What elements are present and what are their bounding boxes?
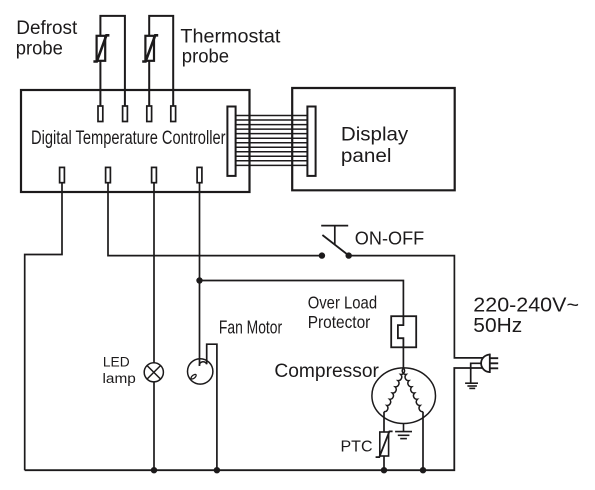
ground compressor case: [395, 424, 412, 439]
svg-text:PTC: PTC: [341, 439, 373, 456]
plug pins: [490, 358, 498, 368]
pin bottom 1: [60, 167, 65, 182]
pin bottom 3: [152, 167, 157, 182]
overload protector OLP1: [391, 316, 416, 347]
node junction pin4 branch: [196, 277, 202, 283]
svg-text:Compressor: Compressor: [274, 360, 379, 382]
label Display panel: [341, 125, 409, 168]
svg-text:Display: Display: [341, 125, 409, 146]
box U1 Digital Temperature Controller: [21, 90, 250, 192]
winding right coil: [402, 368, 423, 411]
pin top 3: [147, 106, 152, 122]
label LED lamp: [103, 355, 136, 386]
wire thermostat probe loop: [149, 16, 173, 106]
label Defrost probe: [16, 18, 78, 60]
wire OLP to compressor: [402, 347, 404, 368]
wire LED lamp to bus: [153, 382, 155, 470]
svg-text:panel: panel: [341, 146, 392, 167]
node junction PTC bus: [381, 467, 387, 473]
wire pin4 to fan motor: [199, 183, 201, 366]
node junction compressor bus: [420, 467, 426, 473]
connector J1 controller side: [227, 107, 235, 176]
connector J2 display side: [307, 107, 315, 176]
svg-text:Protector: Protector: [308, 312, 371, 332]
box Display panel: [292, 88, 455, 190]
wire branch to overload protector: [200, 281, 404, 326]
svg-text:220-240V~: 220-240V~: [473, 295, 579, 317]
compressor M2: [372, 368, 436, 424]
svg-text:Thermostat: Thermostat: [180, 26, 281, 47]
wire bottom bus: [25, 368, 483, 470]
pin top 2: [123, 106, 128, 122]
pin top 1: [98, 106, 103, 122]
node junction LED bus: [151, 467, 157, 473]
label 220-240V~ 50Hz: [473, 295, 579, 337]
PTC thermistor R1: [376, 431, 393, 457]
ribbon cable wires: [236, 116, 308, 166]
wire pin1 to left bus: [25, 183, 62, 471]
wire pin3 to LED lamp: [153, 183, 155, 363]
pin bottom 4: [197, 167, 202, 182]
node junction fan bus: [214, 467, 220, 473]
svg-text:LED: LED: [103, 355, 130, 370]
LED lamp DS1: [144, 363, 163, 382]
wire plug earth: [471, 363, 482, 383]
wire pin2 to switch: [108, 183, 322, 256]
svg-text:probe: probe: [16, 39, 63, 60]
wire PTC to bus: [383, 456, 385, 470]
pin top 4: [171, 106, 176, 122]
pin bottom 2: [106, 167, 111, 182]
plug P1 body: [481, 354, 498, 373]
wire compressor left lead: [383, 412, 385, 432]
svg-text:Defrost: Defrost: [16, 18, 78, 39]
svg-text:Fan Motor: Fan Motor: [219, 316, 282, 337]
svg-text:probe: probe: [182, 47, 229, 68]
label Thermostat probe: [180, 26, 281, 67]
wire compressor right lead to bus: [422, 412, 424, 471]
svg-text:ON-OFF: ON-OFF: [355, 229, 424, 249]
wire switch to plug live: [349, 256, 483, 358]
switch S1 ON-OFF: [319, 226, 352, 259]
winding left coil: [384, 368, 405, 411]
label Over Load Protector: [308, 293, 377, 333]
wire fan motor second lead to bus: [207, 344, 217, 470]
thermistor defrost probe sensor: [93, 35, 109, 61]
wire defrost probe loop: [100, 16, 125, 106]
svg-text:50Hz: 50Hz: [473, 315, 522, 337]
svg-text:Over Load: Over Load: [308, 293, 377, 313]
ground mains earth: [465, 383, 478, 388]
svg-text:lamp: lamp: [103, 371, 136, 386]
fan motor M1: [188, 359, 213, 384]
svg-text:Digital Temperature Controller: Digital Temperature Controller: [31, 128, 226, 149]
thermistor thermostat probe sensor: [142, 35, 158, 61]
